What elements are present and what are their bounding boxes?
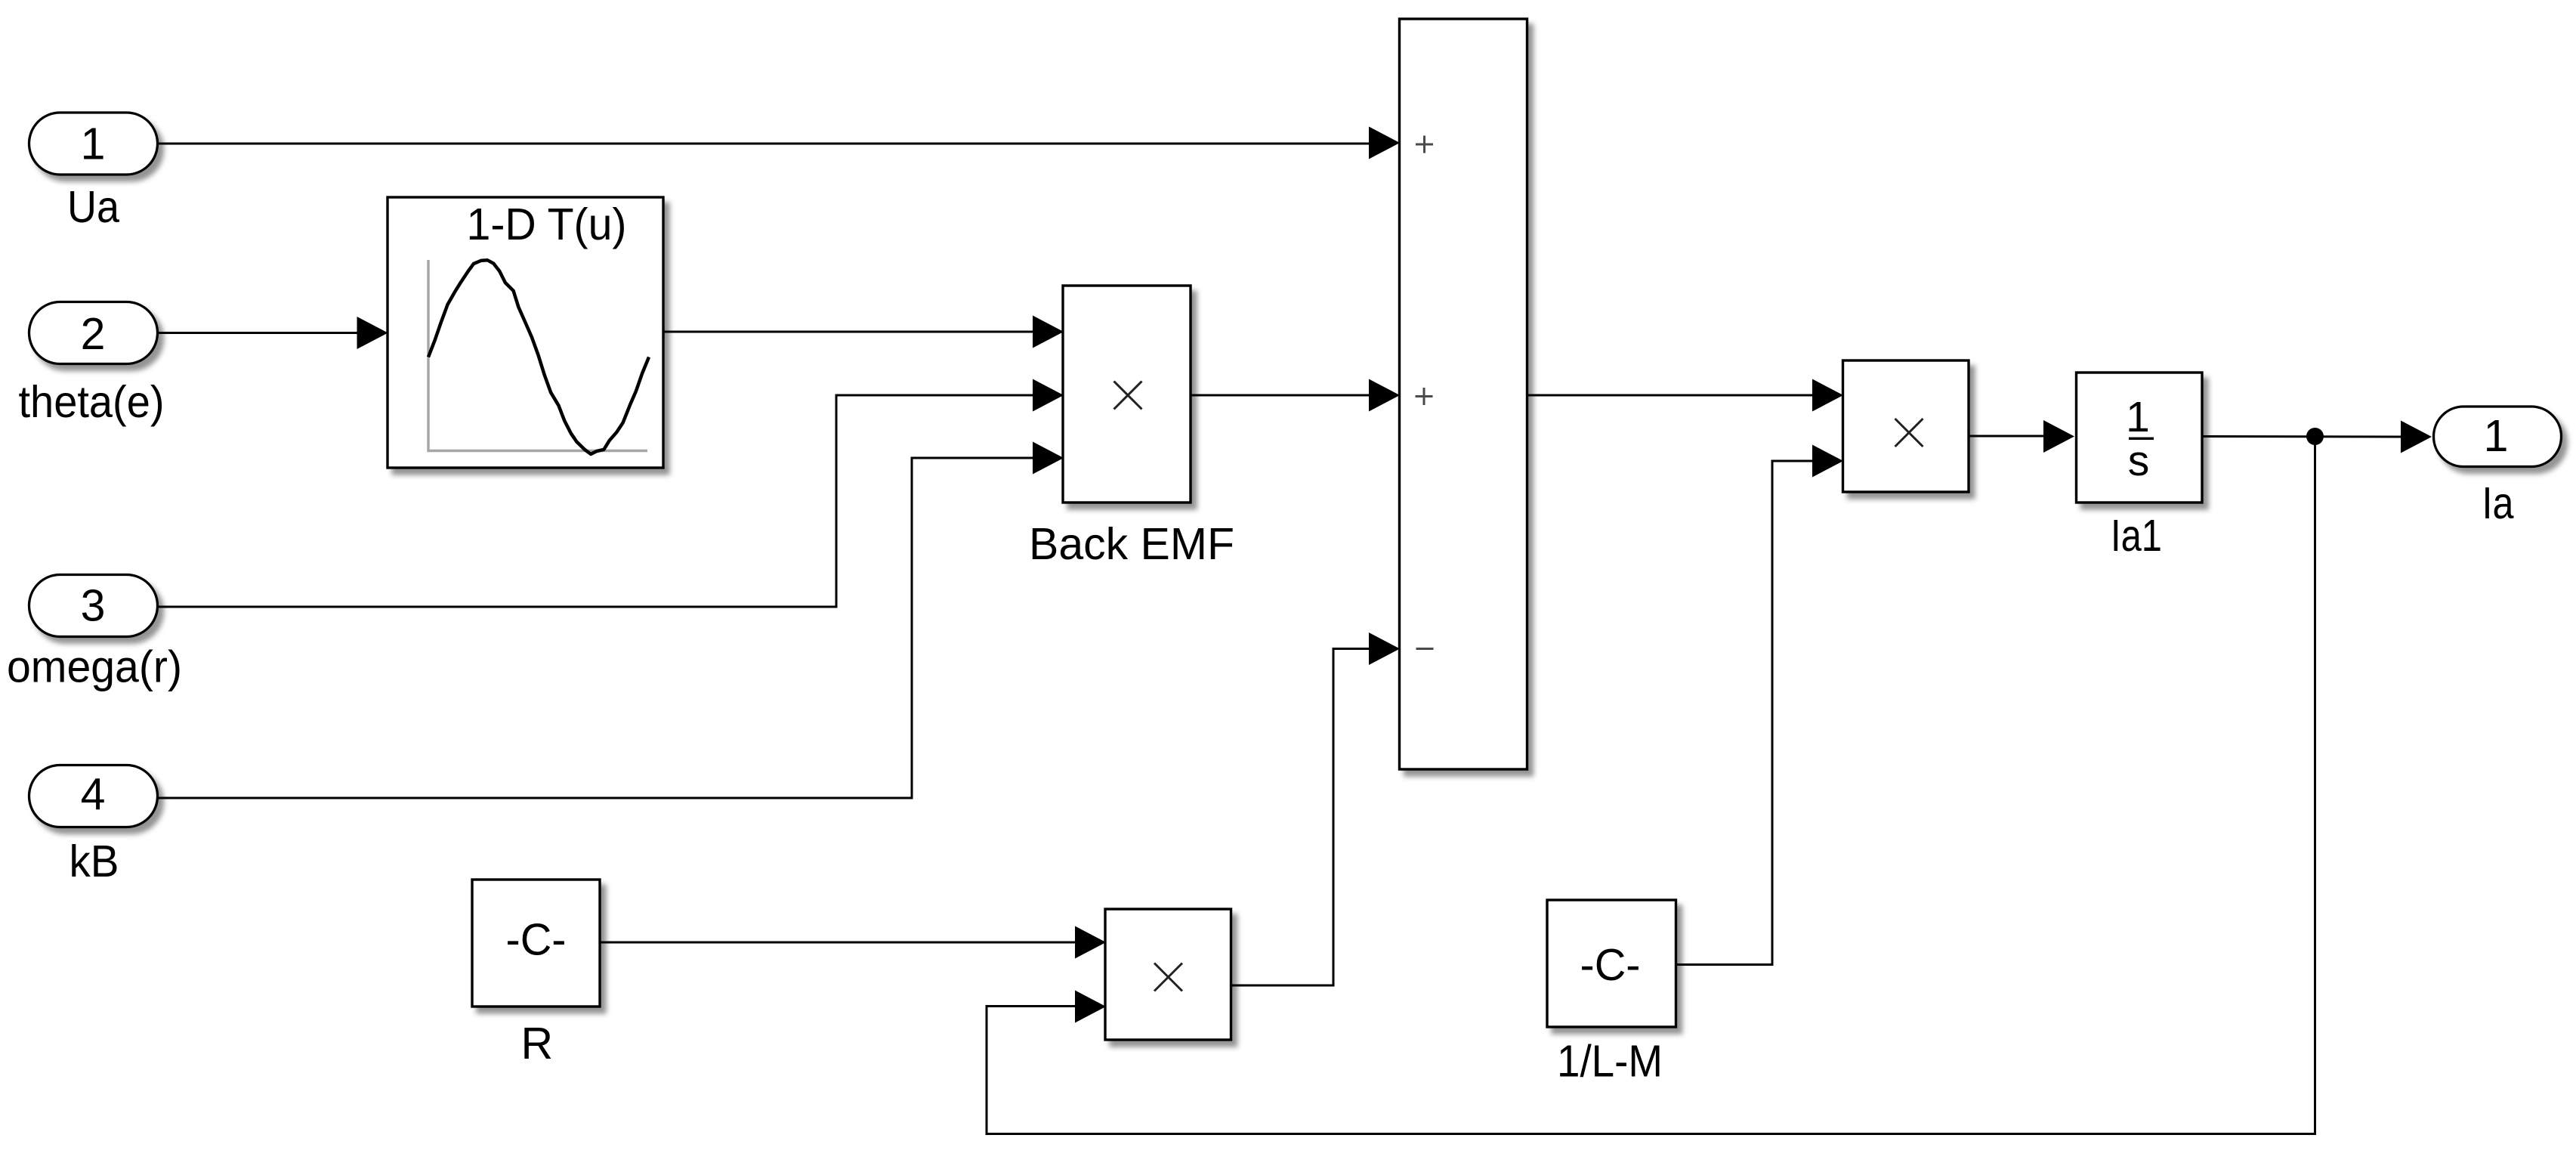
svg-text:theta(e): theta(e) [19, 377, 165, 427]
arrowhead into Sum in3 [1369, 632, 1400, 665]
outport 1 Ia [2434, 407, 2562, 467]
wire feedback from node to Product1 in2 [987, 437, 2315, 1134]
multiply sign of Back EMF [1114, 382, 1142, 410]
lookup axes [428, 260, 647, 451]
svg-text:1-D T(u): 1-D T(u) [467, 199, 627, 249]
wire Back EMF to Sum in2 [1191, 394, 1369, 397]
svg-text:1: 1 [81, 119, 106, 169]
svg-text:-C-: -C- [1580, 940, 1641, 990]
svg-text:3: 3 [81, 581, 106, 631]
arrowhead into Product2 in2 [1812, 445, 1843, 478]
svg-text:Back EMF: Back EMF [1029, 519, 1234, 569]
wire Integrator to outport Ia [2202, 435, 2401, 438]
arrowhead into Back EMF in3 [1033, 442, 1064, 475]
junction node dot [2306, 428, 2324, 445]
sum plus sign input 2 [1416, 388, 1433, 405]
arrowhead into Sum in1 [1369, 127, 1400, 159]
inport 3 omega(r) [29, 575, 158, 637]
multiply sign of lower product [1154, 963, 1182, 991]
svg-text:R: R [520, 1019, 553, 1068]
product block Back EMF [1063, 286, 1191, 503]
wire R to Product1 in1 [600, 942, 1075, 944]
arrowhead into Back EMF in2 [1033, 379, 1064, 412]
svg-text:4: 4 [81, 770, 106, 820]
wire Ua to Sum [158, 143, 1369, 145]
constant block R [472, 880, 600, 1007]
arrowhead into Sum in2 [1369, 379, 1400, 412]
svg-text:1/L-M: 1/L-M [1557, 1037, 1663, 1087]
wire theta(e) to Lookup [158, 332, 357, 334]
wire Product1 to Sum in3 [1231, 649, 1370, 986]
arrowhead into Integrator [2043, 420, 2074, 453]
svg-text:kB: kB [69, 837, 119, 886]
wire 1/L-M to Product2 in2 [1676, 461, 1813, 965]
product block right [1843, 360, 1969, 492]
wire Sum to Product2 in1 [1527, 394, 1813, 397]
inport 4 kB [29, 765, 158, 827]
arrowhead into Product1 in1 [1075, 926, 1106, 959]
sum minus sign input 3 [1416, 648, 1434, 650]
sum plus sign input 1 [1416, 136, 1433, 153]
arrowhead into Product1 in2 [1075, 991, 1106, 1023]
multiply sign of right product [1895, 419, 1923, 447]
constant block 1/L-M [1547, 900, 1676, 1027]
product block lower [1105, 909, 1231, 1040]
svg-text:1: 1 [2126, 393, 2150, 441]
svg-text:omega(r): omega(r) [7, 642, 182, 692]
inport 2 theta(e) [29, 302, 158, 364]
svg-text:s: s [2128, 437, 2150, 485]
arrowhead into Product2 in1 [1812, 379, 1843, 412]
sum block [1400, 19, 1527, 769]
wire omega(r) to Back EMF in2 [159, 395, 1033, 607]
wire Product2 to Integrator [1969, 435, 2043, 438]
svg-text:-C-: -C- [506, 915, 567, 965]
lookup sine curve [428, 260, 649, 454]
integrator block 1/s [2077, 373, 2203, 503]
inport 1 Ua [29, 113, 158, 175]
svg-text:Ua: Ua [67, 182, 119, 232]
svg-text:2: 2 [81, 309, 106, 359]
lookup table block 1-D T(u) [388, 197, 663, 468]
arrowhead into Back EMF in1 [1033, 316, 1064, 348]
wire kB to Back EMF in3 [159, 458, 1033, 798]
svg-text:Ia: Ia [2482, 478, 2514, 528]
svg-text:Ia1: Ia1 [2111, 511, 2162, 561]
arrowhead into Lookup [357, 317, 388, 349]
svg-text:1: 1 [2484, 411, 2509, 461]
arrowhead into outport Ia [2401, 421, 2432, 453]
wire Lookup to Back EMF in1 [664, 331, 1033, 333]
